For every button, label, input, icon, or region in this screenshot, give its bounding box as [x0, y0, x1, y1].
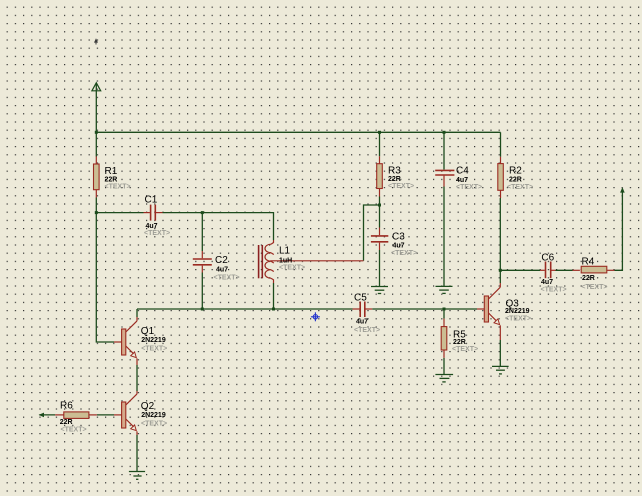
inductor L1 pin bottom: [271, 278, 274, 283]
capacitor C4: [435, 170, 454, 175]
svg-text:C4: C4: [456, 166, 469, 177]
svg-text:4u7: 4u7: [216, 267, 228, 274]
svg-text:R2: R2: [509, 166, 522, 177]
wire R1 bottom to Q1 base: [96, 198, 114, 343]
wire R6 left stub: [39, 414, 55, 416]
svg-text:<TEXT>: <TEXT>: [354, 327, 380, 334]
wire C1 right to L1 top: [163, 213, 274, 240]
transistor Q3 emitter arrow: [494, 319, 500, 325]
resistor R1: [94, 164, 100, 190]
power terminal arrow: [92, 83, 101, 91]
ground C3: [371, 287, 388, 294]
transistor Q1: [122, 329, 126, 355]
resistor R2 pins: [500, 157, 502, 198]
transistor Q3 pins: [477, 283, 500, 340]
capacitor C5 pins: [353, 308, 373, 310]
junction C2 top: [201, 211, 204, 214]
svg-text:<TEXT>: <TEXT>: [144, 230, 170, 237]
svg-text:<TEXT>: <TEXT>: [581, 284, 607, 291]
ground C4: [436, 286, 453, 293]
capacitor C6: [546, 262, 551, 279]
resistor R4: [581, 266, 607, 273]
resistor R1 pins: [95, 157, 97, 198]
svg-text:C3: C3: [392, 232, 405, 243]
svg-text:22R: 22R: [388, 176, 401, 183]
svg-text:4u7: 4u7: [541, 279, 553, 286]
svg-text:R1: R1: [105, 166, 118, 177]
junction R1/power/top rail: [95, 131, 98, 134]
inductor L1 core: [259, 245, 263, 278]
resistor R4 pins: [573, 269, 615, 271]
wire Q1 emitter to Q2 collector: [136, 365, 138, 391]
ground Q3: [492, 366, 509, 374]
junction R1/C1/Q1 base node: [95, 211, 98, 214]
svg-text:22R: 22R: [105, 177, 118, 184]
svg-text:4u7: 4u7: [393, 243, 405, 250]
svg-text:<TEXT>: <TEXT>: [505, 315, 531, 322]
capacitor C2: [193, 259, 212, 265]
svg-text:Q2: Q2: [141, 401, 155, 412]
svg-text:C2: C2: [215, 255, 228, 266]
junction R3/C3/L1 tap node: [378, 204, 381, 207]
inductor L1 pin top: [271, 240, 274, 244]
ground R5: [435, 375, 453, 382]
wire R2 drop: [500, 132, 502, 157]
wire bottom rail left of C5: [137, 308, 353, 310]
wire node to L1 tap: [364, 205, 380, 261]
capacitor C2 pins: [201, 251, 203, 273]
ground Q2: [129, 472, 145, 480]
wire Q2 emitter to ground: [136, 435, 138, 471]
svg-text:4u7: 4u7: [456, 177, 468, 184]
transistor Q2 emitter arrow: [131, 425, 137, 431]
wire R2 bottom to Q3 collector: [499, 198, 501, 283]
svg-text:C1: C1: [145, 195, 158, 206]
junction C2 bottom rail: [201, 308, 204, 311]
svg-text:R4: R4: [582, 257, 595, 268]
junction L1 bottom rail: [272, 308, 275, 311]
svg-text:1uH: 1uH: [279, 258, 292, 265]
svg-text:L1: L1: [279, 246, 291, 257]
wire power stem: [95, 83, 97, 157]
resistor R3 pins: [379, 156, 381, 196]
wire L1 bottom: [273, 283, 275, 309]
wire bottom rail right of C5: [372, 308, 477, 310]
wire R5 to ground: [443, 358, 445, 375]
svg-text:Q1: Q1: [141, 326, 155, 337]
wire C1 left: [96, 212, 143, 214]
svg-text:<TEXT>: <TEXT>: [391, 250, 417, 257]
svg-text:R3: R3: [388, 166, 401, 177]
transistor Q1 emitter arrow: [131, 352, 137, 358]
wire Q3 emitter to ground: [499, 340, 501, 366]
svg-text:<TEXT>: <TEXT>: [388, 183, 414, 190]
transistor Q2 pins: [114, 391, 137, 435]
output arrowhead: [620, 187, 625, 192]
wire R5 top: [443, 309, 445, 319]
svg-text:<TEXT>: <TEXT>: [61, 427, 87, 434]
resistor R5 pins: [443, 319, 445, 358]
wire C2 bottom branch: [201, 273, 203, 310]
wire C4 to ground: [443, 187, 445, 287]
svg-text:<TEXT>: <TEXT>: [141, 346, 167, 353]
node origin marker: [311, 312, 320, 321]
svg-text:4u7: 4u7: [356, 319, 368, 326]
wire C2 top branch: [201, 213, 203, 251]
resistor R6 pins: [55, 414, 97, 416]
capacitor C1 pins: [144, 212, 163, 214]
wire output node to C6: [500, 269, 540, 271]
input arrowhead: [39, 413, 44, 418]
wire C3 to ground: [379, 250, 381, 286]
wire R4 to output stub: [615, 189, 623, 271]
wire R3 bottom to C3: [379, 197, 381, 228]
junction R5 top rail: [443, 308, 446, 311]
svg-text:4u7: 4u7: [146, 223, 158, 230]
wire Q1 collector riser: [136, 309, 138, 317]
capacitor C4 pins: [443, 176, 445, 187]
svg-text:2N2219: 2N2219: [505, 308, 530, 315]
capacitor C5: [360, 302, 365, 318]
svg-text:<TEXT>: <TEXT>: [456, 184, 482, 191]
svg-text:<TEXT>: <TEXT>: [541, 287, 567, 294]
capacitor C1: [151, 205, 156, 221]
transistor Q2: [122, 402, 126, 428]
wire C4 top drop: [443, 132, 445, 169]
resistor R2: [498, 164, 504, 191]
svg-text:<TEXT>: <TEXT>: [214, 275, 240, 282]
origin mark: [94, 38, 98, 44]
svg-text:<TEXT>: <TEXT>: [105, 184, 131, 191]
inductor L1 coil: [265, 244, 274, 278]
resistor R5: [441, 327, 447, 350]
capacitor C3: [371, 236, 388, 242]
svg-text:2N2219: 2N2219: [141, 337, 166, 344]
wire top rail: [96, 131, 500, 133]
transistor Q3: [484, 296, 488, 322]
junction R2/Q3 collector output node: [499, 269, 502, 272]
resistor R3: [377, 164, 383, 189]
svg-text:22R: 22R: [509, 177, 522, 184]
svg-text:22R: 22R: [453, 339, 466, 346]
resistor R6: [64, 412, 89, 419]
capacitor C3 pins: [379, 228, 381, 251]
wire C6 to R4: [556, 269, 573, 271]
junction C4/top rail: [443, 131, 446, 134]
svg-text:<TEXT>: <TEXT>: [279, 265, 305, 272]
wire R3 top drop: [379, 132, 381, 156]
svg-text:2N2219: 2N2219: [141, 412, 166, 419]
capacitor C6 pins: [540, 269, 556, 271]
svg-text:C5: C5: [354, 293, 367, 304]
wire L1 tap to C3 node: [270, 260, 363, 262]
svg-text:22R: 22R: [582, 275, 595, 282]
transistor Q1 pins: [114, 317, 137, 365]
svg-text:C6: C6: [541, 253, 554, 264]
svg-text:22R: 22R: [60, 419, 73, 426]
svg-text:<TEXT>: <TEXT>: [141, 421, 167, 428]
svg-text:R6: R6: [60, 401, 73, 412]
svg-text:<TEXT>: <TEXT>: [452, 346, 478, 353]
svg-text:<TEXT>: <TEXT>: [507, 184, 533, 191]
wire R6 to Q2 base: [97, 414, 114, 416]
junction R3/top rail: [378, 131, 381, 134]
